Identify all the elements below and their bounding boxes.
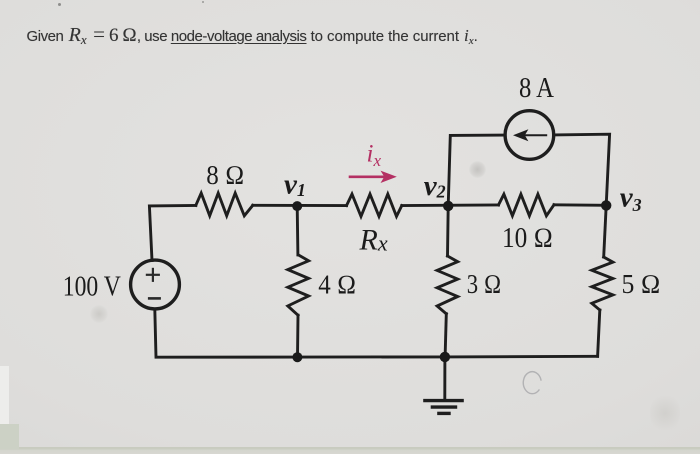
faint smudge bottom-right	[650, 392, 680, 434]
voltage source V 100V	[131, 260, 180, 309]
ground bars	[425, 401, 462, 414]
title text	[27, 24, 478, 52]
wire: bottom rail	[297, 355, 597, 359]
svg-text:5 Ω: 5 Ω	[622, 269, 661, 299]
svg-text:10 Ω: 10 Ω	[502, 223, 553, 254]
speck top-left	[58, 3, 61, 6]
resistor R 5ohm	[592, 257, 613, 310]
wire: 5ohm down to bottom-right corner	[598, 310, 600, 356]
svg-text:v1: v1	[284, 169, 306, 201]
svg-text:8 Ω: 8 Ω	[206, 160, 244, 190]
wire: 8ohm to Rx through node v1	[253, 204, 347, 207]
svg-text:100 V: 100 V	[63, 271, 121, 302]
speck	[202, 1, 204, 3]
svg-text:ix: ix	[367, 141, 382, 171]
svg-text:v2: v2	[424, 170, 446, 202]
left edge light strip	[0, 366, 9, 424]
current arrow ix (magenta)	[350, 171, 397, 183]
node ground junction	[440, 352, 450, 362]
svg-text:4 Ω: 4 Ω	[318, 269, 356, 299]
wire: voltage source bottom to bottom-left corner	[155, 309, 298, 357]
resistor R 4ohm	[288, 255, 309, 315]
bottom-left greenish patch	[0, 424, 19, 449]
wire: current source to top-right corner down to v3	[554, 134, 609, 205]
wire: v3 down to 5ohm	[604, 205, 607, 257]
resistor R 10ohm	[499, 194, 555, 216]
svg-text:8 A: 8 A	[519, 72, 554, 104]
wire: Rx to 10ohm through node v2	[402, 203, 499, 207]
wire: v2 down to 3ohm	[446, 206, 450, 256]
resistor Rx	[347, 194, 402, 216]
node v1	[292, 201, 302, 211]
ground stem	[443, 357, 446, 400]
svg-text:v3: v3	[620, 181, 642, 215]
wire: 3ohm down to ground junction	[445, 314, 446, 357]
current source arrow	[513, 129, 546, 141]
wire: left branch top corner	[149, 206, 195, 261]
voltage source plus sign	[147, 269, 159, 281]
node v2	[443, 201, 453, 211]
faint pen mark	[523, 372, 541, 394]
wire: 10ohm to node v3	[554, 203, 606, 206]
svg-text:3 Ω: 3 Ω	[467, 269, 502, 299]
node v3	[601, 200, 611, 210]
current source I 8A	[505, 111, 554, 160]
voltage source minus sign	[149, 297, 159, 300]
node bottom at 4ohm	[292, 352, 302, 362]
resistor R 3ohm	[437, 256, 458, 314]
svg-text:Rx: Rx	[359, 223, 388, 256]
faint stain left of 4-ohm branch	[90, 305, 108, 323]
wire: 4ohm down to bottom rail	[296, 315, 299, 357]
bottom edge band	[0, 447, 700, 454]
faint stain near current-source loop	[469, 161, 486, 178]
resistor R 8ohm	[196, 193, 253, 216]
wire: v1 down to 4ohm	[296, 206, 300, 255]
wire: v2 up to current-source loop	[448, 135, 505, 206]
